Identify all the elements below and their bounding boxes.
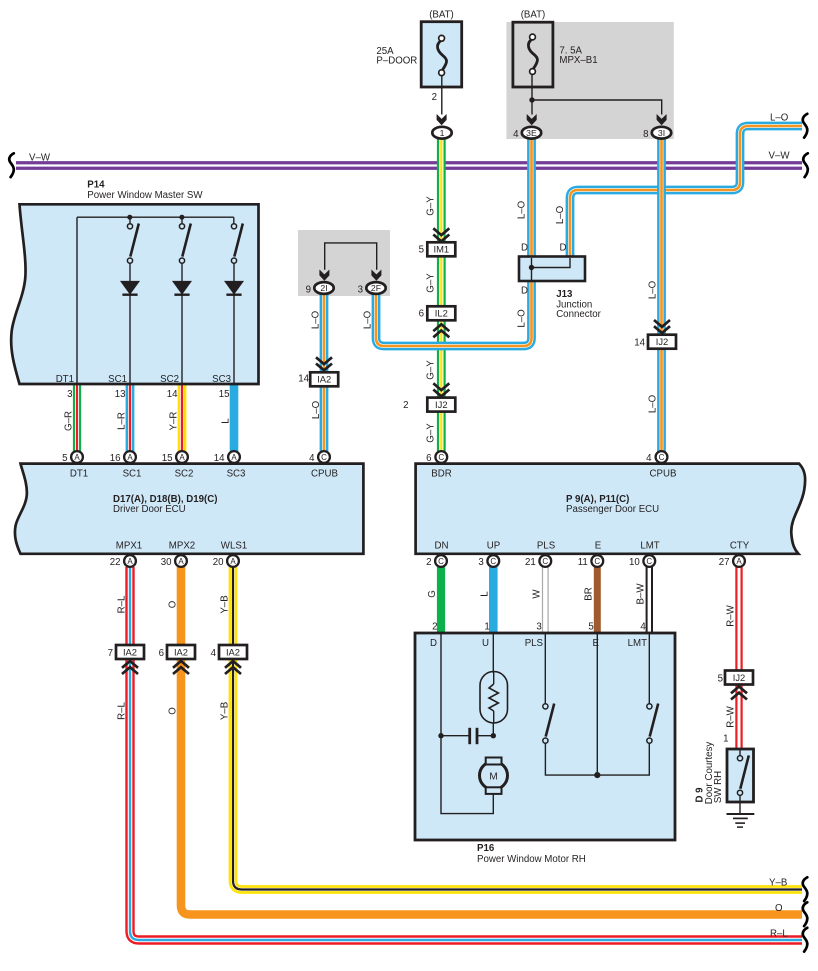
wire L-O 2I to CPUB driver: [320, 293, 329, 451]
svg-text:5: 5: [419, 245, 424, 256]
svg-text:16: 16: [110, 453, 121, 464]
svg-text:IA2: IA2: [317, 374, 331, 385]
wire R-L MPX1 long: [130, 567, 802, 940]
capacitor C in P16: [470, 728, 477, 744]
svg-text:DN: DN: [435, 541, 449, 552]
svg-text:13: 13: [115, 389, 126, 400]
wire Y-R SC2: [178, 384, 187, 452]
diode SC1: [120, 281, 140, 295]
pin circle 3 C UP: [487, 555, 499, 567]
svg-text:CPUB: CPUB: [650, 469, 677, 480]
connector IA2 pin14: [310, 372, 338, 386]
arrow into 3I: [657, 114, 667, 125]
wire fuse1 to node 1: [441, 76, 443, 115]
fuse element 7.5A MPX-B1: [528, 34, 537, 74]
svg-text:P–DOOR: P–DOOR: [376, 56, 417, 67]
pin circle 15 A SC2: [176, 451, 188, 463]
pin circle 30 A MPX2: [175, 555, 187, 567]
break squiggle V-W right: [803, 153, 808, 177]
pin circle 2 C DN: [435, 555, 447, 567]
pin circle 16 A SC1: [124, 451, 136, 463]
break squiggle R-L right: [803, 928, 808, 952]
svg-text:E: E: [595, 541, 602, 552]
svg-text:L: L: [221, 418, 232, 424]
wire DT1 internal: [76, 217, 78, 384]
wire capacitor right lead: [478, 735, 493, 737]
pin circle 20 A WLS1: [227, 555, 239, 567]
svg-text:22: 22: [110, 557, 121, 568]
svg-text:SW RH: SW RH: [713, 771, 724, 803]
svg-text:C: C: [490, 557, 496, 566]
wire BR E to P16: [594, 567, 601, 633]
svg-text:C: C: [659, 453, 665, 462]
svg-text:20: 20: [213, 557, 224, 568]
svg-text:2F: 2F: [371, 283, 381, 293]
svg-text:Driver Door ECU: Driver Door ECU: [113, 504, 186, 515]
wire bus stub SC2: [181, 217, 183, 223]
wire D internal: [441, 633, 493, 814]
chevron below IA2 R-L: [122, 661, 138, 674]
svg-text:1: 1: [484, 622, 489, 633]
svg-text:8: 8: [643, 129, 648, 140]
switch SC3 in P14: [231, 224, 242, 264]
chevron below IA2 Y-B: [225, 661, 241, 674]
svg-text:Y–B: Y–B: [769, 878, 787, 889]
connector IA2 pin6: [167, 645, 195, 659]
svg-text:W: W: [531, 589, 542, 599]
svg-text:G–Y: G–Y: [426, 360, 437, 380]
svg-text:A: A: [230, 557, 236, 566]
diode SC2: [172, 281, 192, 295]
svg-text:IA2: IA2: [123, 646, 137, 657]
connector IL2 pin6: [427, 306, 455, 320]
P16 Power Window Motor RH box: [415, 633, 675, 840]
svg-text:14: 14: [298, 374, 309, 385]
node 2F connector: [366, 282, 385, 294]
svg-text:B–W: B–W: [636, 583, 647, 605]
chevron below IL2: [433, 324, 449, 337]
wire L UP to P16: [489, 567, 498, 633]
wire SC1 switch to diode: [129, 263, 131, 281]
junction block shading (2I/2F block): [298, 230, 390, 296]
wire P14 top bus: [77, 216, 234, 218]
svg-text:R–W: R–W: [726, 604, 737, 626]
svg-text:D: D: [521, 242, 528, 253]
svg-text:L–O: L–O: [770, 113, 789, 124]
chevron below IJ2 R-W: [731, 687, 747, 700]
switch LMT in P16: [647, 704, 658, 744]
pin circle 10 C LMT: [643, 555, 655, 567]
svg-text:4: 4: [309, 453, 315, 464]
wire junction to 3E: [531, 100, 533, 115]
svg-text:5: 5: [718, 674, 723, 685]
svg-text:M: M: [489, 772, 497, 783]
wire PLS internal: [544, 633, 546, 704]
wire B-W LMT to P16: [646, 567, 653, 633]
svg-text:UP: UP: [487, 541, 500, 552]
svg-text:Connector: Connector: [556, 309, 601, 320]
pin circle 27 A CTY: [733, 555, 745, 567]
svg-text:3I: 3I: [658, 128, 665, 138]
fuse box 7.5A MPX-B1: [513, 22, 553, 87]
wire D9 pin to switch: [739, 749, 741, 756]
wire R-W CTY to IJ2: [735, 567, 742, 671]
node 1 connector: [432, 127, 451, 139]
svg-text:G–Y: G–Y: [426, 196, 437, 216]
svg-text:CTY: CTY: [730, 541, 750, 552]
wire L-O 3E to J13: [527, 139, 536, 258]
svg-text:SC1: SC1: [123, 469, 142, 480]
svg-text:A: A: [736, 557, 742, 566]
svg-text:6: 6: [426, 453, 431, 464]
J13 junction connector box: [519, 257, 585, 282]
svg-text:C: C: [438, 557, 444, 566]
junction dot U capacitor: [491, 733, 496, 738]
P9/P11 Passenger Door ECU box: [416, 464, 806, 554]
svg-text:5: 5: [62, 453, 67, 464]
svg-text:2I: 2I: [320, 283, 327, 293]
svg-text:3: 3: [536, 622, 541, 633]
svg-text:C: C: [321, 453, 327, 462]
wire LMT internal: [648, 633, 650, 704]
svg-text:CPUB: CPUB: [311, 469, 338, 480]
svg-text:SC1: SC1: [108, 374, 127, 385]
pin circle 21 C PLS: [539, 555, 551, 567]
svg-text:4: 4: [513, 129, 519, 140]
pin circle 4 C CPUB passenger: [656, 451, 668, 463]
svg-text:A: A: [74, 453, 80, 462]
breaker lead bottom: [492, 711, 494, 736]
wire E internal: [596, 633, 598, 775]
svg-text:1: 1: [440, 128, 445, 138]
junction dot in J13: [529, 265, 534, 270]
svg-text:3E: 3E: [526, 128, 537, 138]
svg-text:DT1: DT1: [70, 469, 88, 480]
svg-text:U: U: [482, 638, 489, 649]
chevron into IA2 CPUB: [316, 357, 332, 370]
fuse box 25A P-DOOR: [421, 22, 462, 87]
wire G DN to P16: [437, 567, 445, 633]
svg-text:L–O: L–O: [363, 310, 374, 329]
svg-text:L–O: L–O: [517, 309, 528, 328]
ground symbol D9: [727, 814, 755, 827]
arrow into 2F: [371, 270, 381, 281]
D17/D18/D19 Driver Door ECU box: [15, 464, 363, 554]
svg-text:4: 4: [640, 622, 646, 633]
svg-text:L–O: L–O: [555, 205, 566, 224]
motor M in P16: [480, 758, 508, 794]
fuse element 25A P-DOOR: [437, 35, 446, 75]
chevron into IJ2 3I: [654, 320, 670, 333]
pin circle 14 A SC3: [228, 451, 240, 463]
svg-text:L–O: L–O: [311, 400, 322, 419]
svg-text:2: 2: [426, 557, 431, 568]
svg-text:IJ2: IJ2: [656, 336, 669, 347]
svg-text:SC3: SC3: [227, 469, 246, 480]
wire SC3 diode to pin: [233, 295, 235, 384]
wire bus stub SC3: [233, 217, 235, 223]
svg-text:WLS1: WLS1: [221, 541, 247, 552]
svg-text:G–Y: G–Y: [426, 273, 437, 293]
svg-text:R–L: R–L: [770, 929, 788, 940]
junction dot bus SC2: [179, 215, 184, 220]
svg-text:L–O: L–O: [517, 200, 528, 219]
svg-text:PLS: PLS: [537, 541, 556, 552]
switch PLS in P16: [543, 704, 554, 744]
svg-text:6: 6: [159, 648, 164, 659]
wire W PLS to P16: [542, 567, 549, 633]
svg-text:A: A: [231, 453, 237, 462]
svg-text:MPX1: MPX1: [116, 541, 142, 552]
wire SC2 switch to diode: [181, 263, 183, 281]
svg-text:C: C: [594, 557, 600, 566]
wire SC3 switch to diode: [233, 263, 235, 281]
svg-text:1: 1: [723, 734, 728, 745]
arrow into 2I: [319, 270, 329, 281]
wire SC1 diode to pin: [129, 295, 131, 384]
svg-text:C: C: [542, 557, 548, 566]
svg-text:G–R: G–R: [64, 411, 75, 431]
svg-text:C: C: [438, 453, 444, 462]
svg-text:O: O: [168, 600, 179, 608]
D9 Door Courtesy SW RH box: [727, 749, 754, 802]
svg-text:A: A: [127, 453, 133, 462]
wire fuse2 to junction: [531, 74, 533, 100]
svg-text:A: A: [179, 453, 185, 462]
svg-text:SC2: SC2: [160, 374, 179, 385]
wire L-R SC1: [126, 384, 135, 452]
svg-text:11: 11: [578, 557, 588, 568]
svg-text:V–W: V–W: [29, 153, 51, 164]
svg-text:L–O: L–O: [311, 310, 322, 329]
svg-text:V–W: V–W: [769, 151, 791, 162]
node 3I connector: [652, 127, 671, 139]
pin circle 6 C BDR: [435, 451, 447, 463]
svg-text:L: L: [479, 591, 490, 597]
svg-text:SC2: SC2: [175, 469, 194, 480]
wire V-W horizontal bus: [16, 161, 802, 170]
wire SC2 diode to pin: [181, 295, 183, 384]
svg-text:O: O: [775, 903, 783, 914]
svg-text:IJ2: IJ2: [733, 672, 746, 683]
break squiggle O right: [803, 902, 808, 926]
connector IA2 pin4: [219, 645, 247, 659]
svg-text:27: 27: [719, 557, 730, 568]
svg-text:10: 10: [629, 557, 640, 568]
wire L-O J13 to 2F: [376, 280, 532, 346]
svg-text:2: 2: [403, 400, 408, 411]
connector IJ2 pin2: [427, 398, 455, 412]
svg-text:D: D: [521, 286, 528, 297]
svg-text:7: 7: [108, 648, 113, 659]
P14 Power Window Master SW box: [11, 204, 258, 384]
junction block shading (fuse MPX-B1 block): [506, 22, 673, 139]
node 2I connector: [314, 282, 333, 294]
svg-text:G: G: [427, 590, 438, 598]
svg-text:MPX2: MPX2: [169, 541, 195, 552]
svg-text:15: 15: [219, 389, 230, 400]
svg-text:3: 3: [67, 389, 72, 400]
wire bus stub SC1: [129, 217, 131, 223]
svg-text:IA2: IA2: [226, 646, 240, 657]
svg-text:L–O: L–O: [648, 280, 659, 299]
svg-text:2: 2: [432, 622, 437, 633]
wire R-W IJ2 to D9: [735, 684, 742, 749]
svg-text:9: 9: [306, 284, 311, 295]
connector IM1 pin5: [427, 242, 455, 256]
svg-text:C: C: [646, 557, 652, 566]
wire J13 internal link: [532, 258, 571, 268]
arrow into 3E: [527, 114, 537, 125]
svg-text:(BAT): (BAT): [429, 10, 454, 21]
svg-text:4: 4: [646, 453, 652, 464]
junction dot E bus: [594, 772, 600, 778]
svg-text:5: 5: [588, 622, 593, 633]
wire junction to 3I: [532, 100, 662, 115]
svg-text:A: A: [178, 557, 184, 566]
switch SC1 in P14: [127, 224, 138, 264]
svg-text:14: 14: [167, 389, 178, 400]
circuit breaker in P16: [480, 672, 508, 724]
svg-text:P14: P14: [87, 180, 105, 191]
pin circle 22 A MPX1: [124, 555, 136, 567]
svg-text:15: 15: [162, 453, 173, 464]
connector IJ2 pin14: [648, 335, 676, 349]
wire capacitor left lead: [441, 735, 469, 737]
wire L SC3: [230, 384, 239, 452]
wire L-O 3I to CPUB: [657, 139, 666, 453]
wire D9 switch to ground: [739, 795, 741, 814]
svg-text:3: 3: [358, 284, 363, 295]
svg-text:Y–R: Y–R: [169, 412, 180, 431]
breaker lead top: [493, 672, 495, 684]
junction dot under fuse2: [529, 97, 534, 102]
break squiggle L-O top right: [803, 114, 808, 138]
svg-text:BDR: BDR: [431, 469, 451, 480]
svg-text:DT1: DT1: [56, 374, 74, 385]
svg-text:6: 6: [419, 309, 424, 320]
switch D9: [737, 755, 748, 795]
svg-text:30: 30: [161, 557, 172, 568]
switch SC2 in P14: [179, 224, 190, 264]
svg-text:R–L: R–L: [117, 702, 128, 720]
wire PLS switch to bus: [545, 743, 649, 775]
break squiggle V-W left: [9, 153, 14, 177]
svg-text:A: A: [127, 557, 133, 566]
svg-text:L–R: L–R: [117, 412, 128, 430]
svg-text:G–Y: G–Y: [426, 423, 437, 443]
svg-text:E: E: [593, 638, 600, 649]
svg-text:PLS: PLS: [525, 638, 544, 649]
svg-text:IL2: IL2: [435, 308, 448, 319]
chevron below IA2 O: [173, 661, 189, 674]
chevron into IJ2 G-Y: [433, 383, 449, 396]
pin circle 4 C CPUB driver: [318, 451, 330, 463]
svg-text:LMT: LMT: [628, 638, 647, 649]
arrow into node 1: [437, 114, 447, 125]
svg-text:SC3: SC3: [212, 374, 231, 385]
svg-text:2: 2: [432, 92, 437, 103]
svg-text:R–L: R–L: [117, 595, 128, 613]
svg-text:Power Window Motor RH: Power Window Motor RH: [477, 854, 586, 865]
svg-text:Y–B: Y–B: [220, 702, 231, 720]
svg-text:D: D: [430, 638, 437, 649]
svg-text:Power Window Master SW: Power Window Master SW: [87, 190, 203, 201]
junction dot bus SC1: [127, 215, 132, 220]
svg-text:R–W: R–W: [726, 705, 737, 727]
svg-text:L–O: L–O: [648, 394, 659, 413]
break squiggle Y-B right: [803, 877, 808, 901]
wire G-Y fuse to BDR: [437, 139, 446, 453]
svg-text:IJ2: IJ2: [435, 399, 448, 410]
connector IA2 pin7: [116, 645, 144, 659]
wire L-O J13 to right edge: [570, 126, 802, 257]
breaker zigzag element: [489, 684, 498, 711]
svg-text:BR: BR: [583, 587, 594, 600]
wire U internal upper: [492, 633, 494, 673]
svg-text:Passenger Door ECU: Passenger Door ECU: [566, 504, 659, 515]
wire O MPX2 long: [181, 567, 802, 915]
svg-text:3: 3: [478, 557, 483, 568]
svg-text:D: D: [560, 242, 567, 253]
svg-text:O: O: [168, 707, 179, 715]
svg-text:14: 14: [634, 338, 645, 349]
svg-text:4: 4: [211, 648, 217, 659]
wire Y-B WLS1 long: [233, 567, 802, 890]
svg-text:MPX–B1: MPX–B1: [559, 55, 597, 66]
svg-text:21: 21: [525, 557, 536, 568]
diode SC3: [224, 281, 244, 295]
chevron into IM1: [433, 228, 449, 241]
svg-text:Y–B: Y–B: [220, 595, 231, 613]
svg-text:IA2: IA2: [174, 646, 188, 657]
connector IJ2 pin5: [725, 671, 753, 685]
pin circle 11 C E: [591, 555, 603, 567]
svg-text:14: 14: [214, 453, 225, 464]
svg-text:IM1: IM1: [433, 244, 449, 255]
svg-text:(BAT): (BAT): [521, 10, 546, 21]
wire J13 left through: [531, 258, 533, 280]
pin circle 5 A DT1: [71, 451, 83, 463]
wire 2I-2F jumper: [325, 243, 377, 270]
node 3E connector: [522, 127, 541, 139]
wire G-R DT1: [73, 384, 81, 452]
junction dot D capacitor: [438, 733, 443, 738]
svg-text:LMT: LMT: [640, 541, 659, 552]
svg-text:P16: P16: [477, 843, 495, 854]
